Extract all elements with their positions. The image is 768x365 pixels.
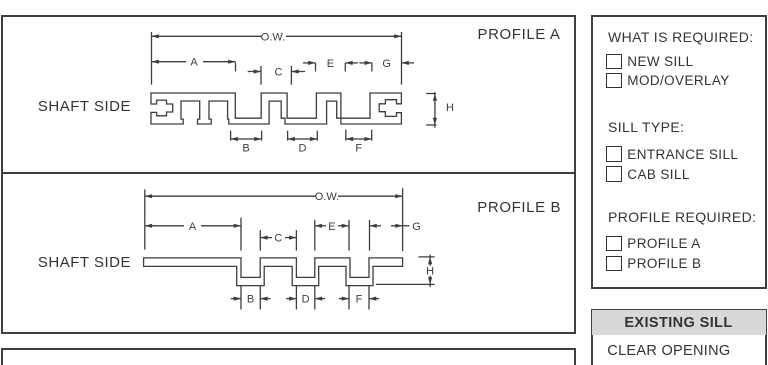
dim B: H dimension (418, 256, 434, 258)
dim B: G dimension (369, 220, 371, 251)
dim A: A dimension (152, 61, 187, 63)
svg-text:B: B (242, 143, 249, 155)
panel: Profile B (1, 172, 576, 335)
dim B: D dimension (295, 286, 297, 310)
dim A: O.W. extension lines (151, 32, 153, 85)
svg-text:D: D (299, 143, 307, 155)
dim B: C dimension (259, 230, 261, 251)
dim B: A dimension (240, 218, 242, 251)
svg-text:H: H (446, 102, 454, 114)
svg-text:G: G (412, 221, 421, 233)
dim B: F dimension (348, 286, 350, 310)
dim A: G dimension (371, 63, 373, 72)
label: PROFILE B (477, 199, 561, 216)
panel: existing sill (591, 309, 768, 365)
svg-text:O.W.: O.W. (261, 31, 285, 43)
checkbox: NEW SILL (606, 54, 622, 70)
dim B: B dimension (240, 286, 242, 310)
panel: right options (591, 15, 768, 289)
checkbox: PROFILE A (606, 236, 622, 252)
svg-text:D: D (302, 294, 310, 306)
svg-text:G: G (382, 58, 391, 70)
dim A: O.W. dimension line (152, 35, 263, 37)
dim A: E dimension (315, 63, 317, 72)
dim A: F dimension (345, 130, 347, 141)
profile B outline (144, 258, 403, 286)
svg-text:A: A (189, 221, 197, 233)
label: WHAT IS REQUIRED: (608, 29, 754, 45)
svg-text:E: E (327, 58, 334, 70)
label: SILL TYPE: (608, 119, 684, 135)
label: SHAFT SIDE (B) (38, 254, 131, 271)
panel: Profile A (1, 15, 576, 173)
checkbox: MOD/OVERLAY (606, 73, 622, 89)
svg-text:B: B (247, 294, 254, 306)
dim A: C dimension (260, 66, 262, 85)
label: SHAFT SIDE (A) (38, 98, 131, 115)
panel: bottom left (clipped) (1, 348, 576, 365)
svg-text:H: H (426, 266, 434, 278)
dim B: O.W. extension lines (144, 189, 146, 249)
svg-text:O.W.: O.W. (315, 191, 339, 203)
header: EXISTING SILL (592, 310, 766, 335)
checkbox: PROFILE B (606, 256, 622, 272)
checkbox: ENTRANCE SILL (606, 146, 622, 162)
dim A: H dimension (426, 93, 436, 95)
svg-text:F: F (355, 143, 362, 155)
dim A: B dimension (230, 131, 232, 141)
label: CLEAR OPENING (607, 343, 730, 359)
label: PROFILE A (478, 26, 561, 43)
svg-text:A: A (190, 57, 198, 69)
dim A: D dimension (287, 131, 289, 141)
dim B: O.W. dimension line (145, 195, 316, 197)
label: PROFILE REQUIRED: (608, 209, 756, 225)
svg-text:F: F (356, 294, 363, 306)
checkbox: CAB SILL (606, 166, 622, 182)
svg-text:E: E (328, 221, 335, 233)
profile A outline (151, 93, 401, 124)
dim B: E dimension (314, 220, 316, 251)
svg-text:C: C (275, 67, 283, 79)
svg-text:C: C (274, 233, 282, 245)
